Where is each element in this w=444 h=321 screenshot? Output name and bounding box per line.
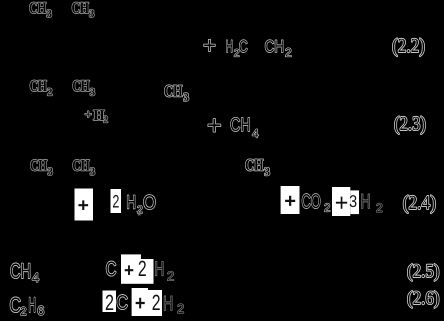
svg-text:3: 3 (90, 166, 96, 178)
svg-text:2: 2 (138, 256, 147, 281)
svg-text:C: C (10, 294, 22, 317)
svg-text:3: 3 (264, 165, 270, 179)
svg-text:CH: CH (72, 0, 90, 17)
svg-text:2: 2 (47, 87, 53, 99)
svg-text:+: + (85, 107, 92, 122)
svg-text:3: 3 (48, 166, 54, 178)
svg-text:2: 2 (103, 114, 108, 125)
svg-text:CH: CH (265, 37, 284, 56)
svg-text:2: 2 (20, 306, 26, 318)
svg-text:2: 2 (177, 301, 184, 316)
svg-text:(2.4): (2.4) (403, 192, 436, 214)
svg-text:CH: CH (245, 155, 264, 174)
svg-text:(2.6): (2.6) (407, 288, 440, 309)
svg-text:3: 3 (90, 87, 96, 99)
svg-text:H: H (126, 192, 136, 213)
svg-text:2: 2 (324, 203, 330, 215)
svg-text:CH: CH (29, 0, 47, 17)
svg-text:H: H (28, 294, 36, 317)
svg-text:(2.3): (2.3) (394, 113, 426, 135)
svg-text:O: O (143, 192, 156, 214)
svg-text:CH: CH (230, 115, 251, 136)
svg-text:4: 4 (252, 127, 259, 141)
svg-text:3: 3 (349, 192, 357, 211)
svg-text:C: C (116, 292, 128, 314)
bond line stub below H2O (137, 211, 141, 216)
svg-text:+: + (207, 110, 222, 140)
svg-text:H: H (163, 293, 173, 315)
svg-text:+: + (203, 32, 216, 58)
svg-text:2: 2 (152, 290, 161, 315)
svg-text:3: 3 (47, 8, 53, 20)
svg-text:2: 2 (167, 268, 174, 283)
white box +2 row6 (132, 288, 148, 316)
svg-text:3: 3 (89, 8, 95, 20)
svg-text:2: 2 (285, 45, 292, 59)
white box 2 (111, 189, 122, 213)
svg-text:+: + (284, 191, 296, 213)
svg-text:H: H (154, 258, 164, 280)
svg-text:(2.5): (2.5) (407, 261, 440, 282)
white box +3 (332, 187, 350, 216)
svg-text:(2.2): (2.2) (392, 35, 425, 57)
svg-text:C: C (106, 258, 117, 280)
svg-text:4: 4 (32, 270, 39, 285)
white box +CO2 plus (281, 186, 300, 214)
svg-text:CH: CH (72, 158, 90, 175)
svg-text:+: + (135, 292, 146, 315)
svg-text:2: 2 (112, 192, 119, 212)
white box plus (row4 left) (75, 189, 94, 221)
svg-text:6: 6 (37, 303, 44, 318)
svg-text:3: 3 (183, 90, 189, 104)
white box +2 row5 (121, 254, 141, 283)
svg-text:H: H (360, 191, 370, 213)
svg-text:CH: CH (10, 260, 31, 283)
svg-text:H: H (226, 37, 233, 56)
white box 2 row6 (103, 291, 117, 313)
svg-text:+: + (124, 261, 134, 282)
svg-text:2: 2 (376, 201, 383, 215)
svg-text:CH: CH (30, 78, 48, 95)
svg-text:+: + (78, 196, 89, 217)
svg-text:CH: CH (72, 78, 90, 95)
svg-text:C: C (239, 37, 248, 56)
svg-text:+: + (335, 189, 349, 217)
svg-text:2: 2 (105, 290, 114, 315)
svg-text:CH: CH (164, 82, 183, 101)
svg-text:CH: CH (30, 158, 48, 175)
svg-text:CO: CO (302, 191, 321, 213)
